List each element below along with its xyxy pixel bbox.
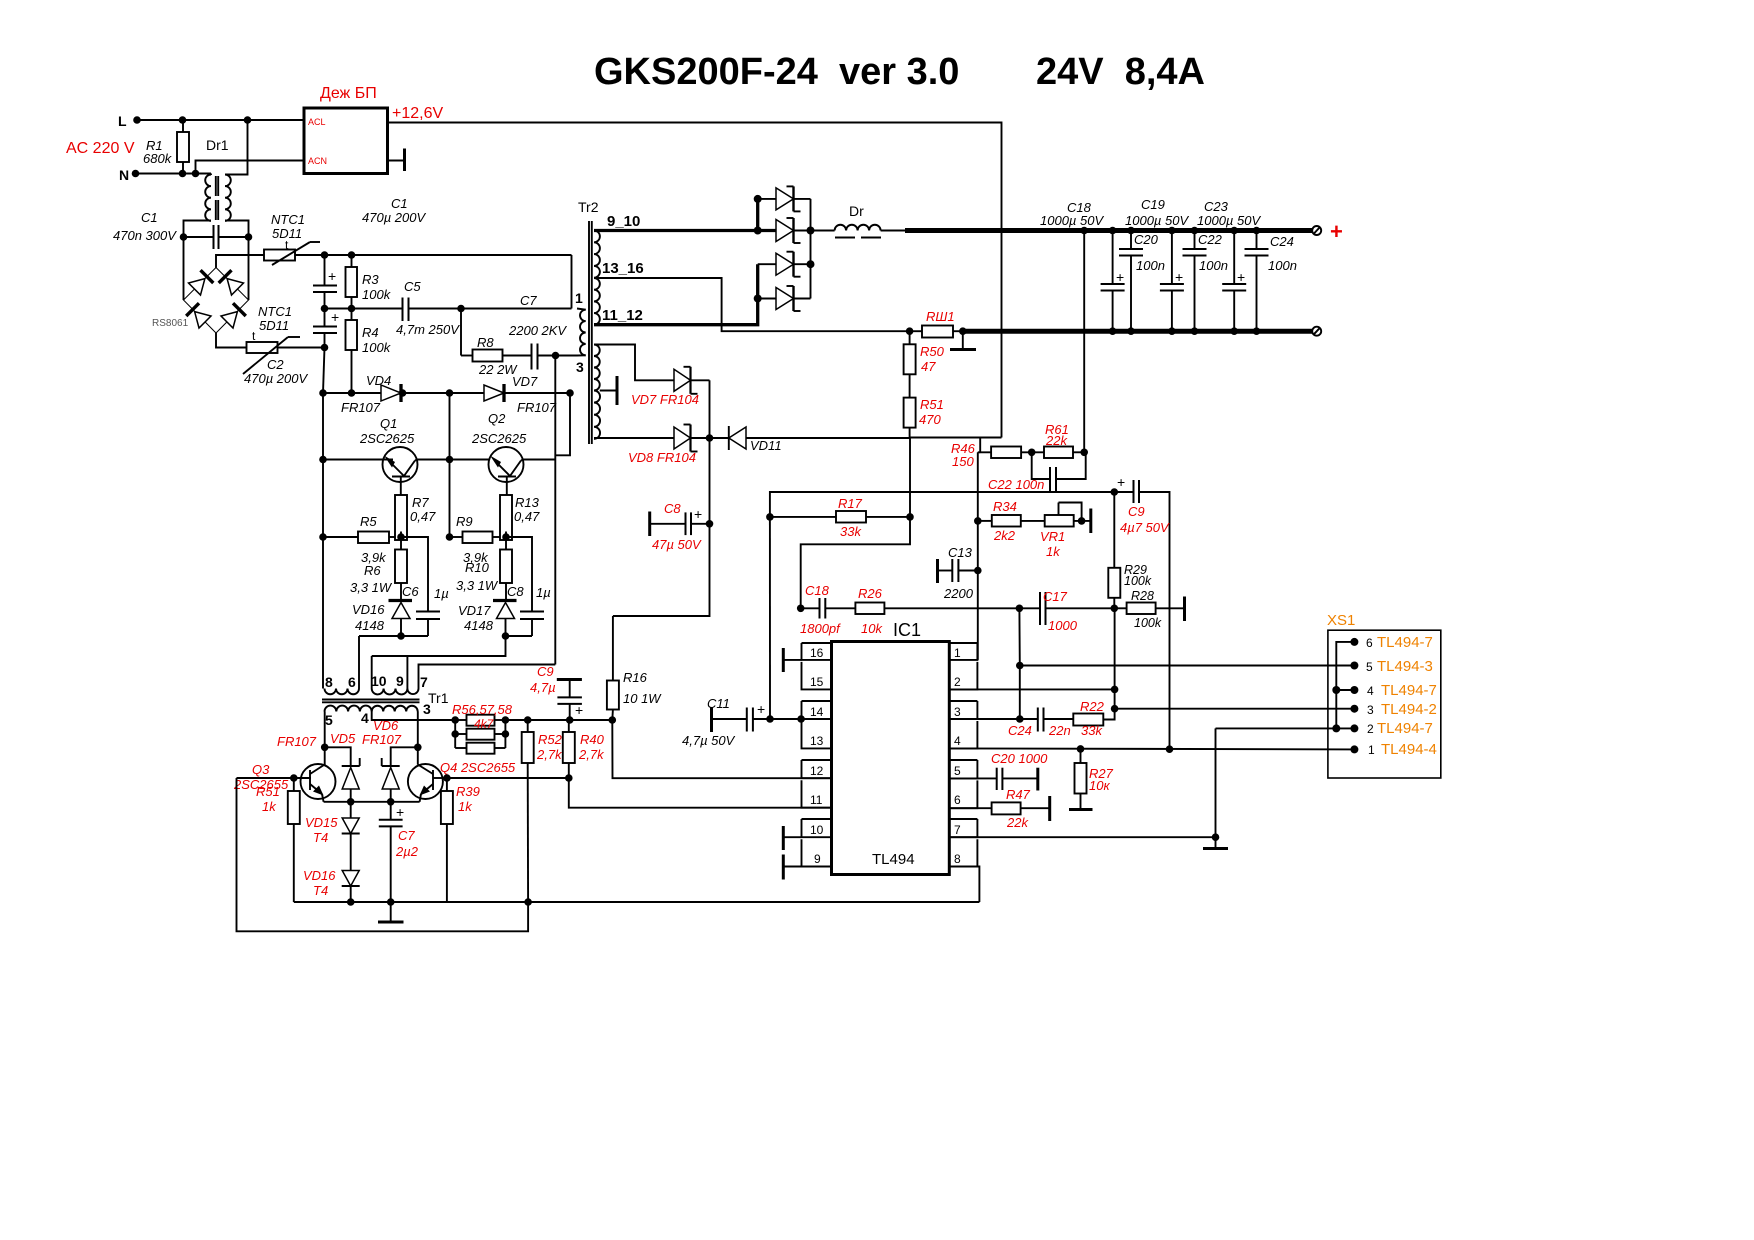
svg-text:1: 1 [575, 290, 583, 306]
inductor Dr1 common-mode choke [184, 120, 249, 300]
diode D1 (dual) [758, 186, 811, 211]
svg-text:470µ 200V: 470µ 200V [362, 210, 426, 225]
svg-text:2200: 2200 [943, 586, 974, 601]
resistor R16 10 1W [607, 616, 662, 720]
pin 7 [949, 819, 977, 837]
wire Tr1 pin4 lead to R56 rail [372, 712, 456, 721]
node junction N-ACN [192, 170, 200, 178]
svg-text:Q1: Q1 [380, 416, 397, 431]
pin 16 [802, 643, 832, 660]
diode VD15 T4 [305, 802, 360, 845]
wire pin4 line to XS1 [949, 748, 1354, 749]
capacitor C6 1u [401, 537, 449, 636]
pin 3 [949, 701, 977, 719]
wire R17 node down to pin14 [769, 517, 771, 719]
capacitor C1 470u 200V [313, 196, 426, 309]
svg-text:Tr1: Tr1 [428, 690, 449, 706]
svg-text:Tr2: Tr2 [578, 199, 599, 215]
output terminal minus [1312, 327, 1321, 336]
node junction VD16-C6 bottom [397, 632, 405, 640]
wire 9_10 rail [594, 229, 776, 232]
svg-text:1k: 1k [1046, 544, 1061, 559]
output capacitor C18 1000u 50V [1040, 200, 1125, 335]
svg-text:4: 4 [361, 710, 369, 726]
wire pin3 to C24 [949, 718, 1020, 720]
svg-text:+12,6V: +12,6V [392, 105, 443, 122]
node junction C8 [706, 520, 714, 528]
transformer Tr2 [575, 199, 599, 444]
wire pin8 to bottom rail [949, 867, 979, 903]
svg-text:C7: C7 [398, 828, 415, 843]
svg-text:2,7k: 2,7k [578, 747, 605, 762]
resistor R5 3,9k [319, 514, 405, 565]
node L terminal [118, 113, 141, 129]
transistor Q3 2SC2655 [233, 747, 336, 802]
svg-text:2SC2625: 2SC2625 [359, 431, 415, 446]
svg-text:100k: 100k [1124, 574, 1152, 588]
node junction NTC2 right [321, 344, 329, 352]
resistor R29 100k [1108, 492, 1152, 608]
svg-text:C22 100n: C22 100n [988, 477, 1044, 492]
potentiometer VR1 1k [1040, 503, 1091, 560]
wire R61 to output bus [1083, 231, 1085, 453]
svg-text:VD11: VD11 [750, 438, 782, 453]
resistor R34 2k2 [974, 499, 1045, 543]
svg-text:RШ1: RШ1 [926, 309, 955, 324]
wire VD17 bottom rail [506, 635, 533, 637]
wire VD4-VD7 line [323, 392, 570, 394]
node junction L-R1 [179, 116, 187, 124]
svg-text:R51: R51 [920, 397, 944, 412]
svg-text:4,7m 250V: 4,7m 250V [396, 322, 460, 337]
pin 13 [802, 721, 832, 748]
svg-text:R5: R5 [360, 514, 377, 529]
svg-text:ACN: ACN [308, 156, 327, 166]
svg-text:1000: 1000 [1048, 618, 1078, 633]
svg-text:VD8 FR104: VD8 FR104 [628, 450, 696, 465]
svg-text:2: 2 [1367, 722, 1374, 736]
svg-text:6: 6 [1366, 636, 1373, 650]
svg-text:VD6: VD6 [373, 718, 399, 733]
wire pin7 line [949, 836, 1215, 838]
svg-text:11_12: 11_12 [602, 307, 643, 324]
svg-text:C20: C20 [1134, 232, 1159, 247]
svg-text:VD17: VD17 [458, 603, 491, 618]
node junction Q1 emitter rail [319, 456, 327, 464]
svg-text:VR1: VR1 [1040, 529, 1065, 544]
diode VD8 FR104 [628, 425, 729, 466]
node junctions bottom rail [347, 898, 355, 906]
svg-text:+: + [1330, 219, 1343, 244]
svg-text:R8: R8 [477, 335, 494, 350]
svg-text:3: 3 [954, 705, 961, 719]
svg-text:47: 47 [921, 359, 936, 374]
svg-text:R28: R28 [1131, 589, 1154, 603]
output terminal plus [1312, 219, 1343, 244]
ground pin10 [783, 826, 801, 850]
svg-text:22k: 22k [1006, 815, 1029, 830]
title [594, 51, 1205, 93]
pin 6 [949, 780, 977, 808]
node junction VD7/VD8 cathodes [706, 434, 714, 442]
svg-text:1k: 1k [458, 799, 473, 814]
wire C24 node vertical [1019, 666, 1021, 720]
svg-text:Деж БП: Деж БП [320, 85, 377, 102]
capacitor C13 2200 [938, 545, 982, 601]
svg-text:R7: R7 [412, 495, 429, 510]
svg-text:NTC1: NTC1 [258, 304, 292, 319]
diode VD16 T4 [303, 834, 360, 903]
svg-text:R3: R3 [362, 272, 379, 287]
svg-text:+: + [1117, 474, 1125, 490]
svg-text:N: N [119, 167, 129, 183]
svg-text:33k: 33k [1081, 723, 1103, 738]
svg-text:4µ7 50V: 4µ7 50V [1120, 520, 1170, 535]
svg-text:3,3 1W: 3,3 1W [456, 578, 499, 593]
wire to Tr2 pin3 [556, 355, 578, 357]
resistor R46 150 [951, 438, 1044, 470]
ground pin9 [783, 855, 801, 880]
resistor R28 100k [1114, 589, 1184, 630]
svg-text:C7: C7 [520, 293, 537, 308]
svg-text:C19: C19 [1141, 197, 1165, 212]
capacitor C18 1800pf [797, 583, 856, 636]
diode VD4 FR107 [341, 373, 401, 415]
transistor Q4 2SC2655 [408, 747, 516, 802]
wire pin3 line to XS1 [1115, 708, 1355, 710]
svg-text:16: 16 [810, 646, 824, 660]
svg-text:4k7: 4k7 [474, 717, 495, 731]
svg-text:R17: R17 [838, 496, 863, 511]
capacitor C8 1u [506, 537, 551, 636]
svg-text:7: 7 [954, 823, 961, 837]
svg-text:1000µ 50V: 1000µ 50V [1040, 213, 1104, 228]
resistor R13 0,47 [500, 495, 540, 540]
svg-text:FR107: FR107 [362, 732, 402, 747]
svg-text:33k: 33k [840, 524, 862, 539]
svg-text:C1: C1 [141, 210, 158, 225]
svg-text:C6: C6 [402, 584, 419, 599]
output capacitor C22 100n [1183, 227, 1228, 335]
node junction L-choke [244, 116, 252, 124]
wire left rail lower [323, 348, 325, 394]
node junction pin7 gnd [1212, 833, 1220, 841]
wire VD7 cathode down [709, 380, 711, 438]
svg-text:C8: C8 [664, 501, 681, 516]
resistor R51 1k [256, 774, 300, 902]
wire mid vertical [449, 393, 451, 537]
thermistor NTC1 5D11 (top) [264, 212, 320, 265]
diode D3 (dual) [758, 252, 811, 277]
ground of standby box [388, 149, 405, 172]
ground symbol bottom [378, 902, 404, 922]
resistor R4 100k [346, 309, 392, 394]
svg-text:R39: R39 [456, 784, 480, 799]
resistor R39 1k [441, 778, 480, 902]
svg-text:22k: 22k [1045, 433, 1068, 448]
svg-text:2,7k: 2,7k [536, 747, 563, 762]
transformer Tr1 [322, 673, 449, 728]
node junction VD5 anode [347, 798, 355, 806]
pin 12 [802, 760, 832, 778]
svg-text:3: 3 [423, 701, 431, 717]
svg-text:22n: 22n [1048, 723, 1071, 738]
wire Q3-Q4 emitter rail [324, 801, 420, 803]
svg-text:+: + [396, 804, 404, 820]
svg-text:+: + [331, 309, 339, 325]
svg-text:1k: 1k [262, 799, 277, 814]
resistor R61 22k [1044, 422, 1084, 458]
svg-text:Dr1: Dr1 [206, 137, 229, 153]
svg-text:2SC2625: 2SC2625 [471, 431, 527, 446]
svg-text:1µ: 1µ [536, 585, 551, 600]
ground at output minus [950, 331, 976, 349]
resistor R6 3,3 1W [350, 537, 407, 601]
svg-text:6: 6 [954, 793, 961, 807]
wire pin12 line [612, 720, 830, 778]
capacitor C17 1000 [1019, 589, 1114, 633]
resistor R17 33k [766, 496, 914, 539]
svg-text:5: 5 [1366, 660, 1373, 674]
svg-text:9: 9 [814, 852, 821, 866]
wire Tr1 pin7 lead [419, 665, 556, 689]
svg-text:4148: 4148 [355, 618, 385, 633]
inductor Dr [835, 203, 905, 238]
resistor block R56,57,58 4k7 [451, 702, 612, 754]
svg-text:100k: 100k [362, 287, 392, 302]
resistor R47 22k [949, 787, 1049, 830]
capacitor C22 100n [988, 452, 1086, 492]
svg-text:10к: 10к [1089, 778, 1110, 793]
svg-text:4,7µ: 4,7µ [530, 680, 556, 695]
svg-text:15: 15 [810, 675, 824, 689]
svg-text:4: 4 [954, 734, 961, 748]
svg-text:+: + [328, 268, 336, 284]
wire +12.6V joins aux [910, 437, 1002, 439]
node D3/D4 anode [754, 295, 762, 303]
svg-text:C2: C2 [267, 357, 284, 372]
svg-text:C5: C5 [404, 279, 421, 294]
svg-text:AC 220 V: AC 220 V [66, 140, 135, 157]
wire Tr1 pin9-pin10 link [372, 636, 506, 689]
svg-text:470: 470 [919, 412, 941, 427]
svg-text:T4: T4 [313, 883, 328, 898]
wire bridge bottom to NTC2 [216, 333, 247, 348]
diode VD6 [362, 718, 418, 802]
node D1 anode [754, 195, 762, 203]
svg-text:TL494-2: TL494-2 [1381, 701, 1437, 718]
capacitor C7 2u2 [379, 802, 419, 902]
wire base feedback loop [237, 778, 529, 931]
wire pin5 line to XS1 [1019, 608, 1354, 665]
node junction VD17-C8 bottom [502, 632, 510, 640]
wire D1 anode riser [756, 199, 759, 231]
wire feedback vertical to pin1 [977, 452, 979, 660]
svg-text:470µ 200V: 470µ 200V [244, 371, 308, 386]
diode VD16 4148 [352, 601, 412, 637]
svg-text:R13: R13 [515, 495, 540, 510]
node junction R27 top [1077, 745, 1085, 753]
node junction C24 left [1016, 715, 1024, 723]
node junction VD6 anode C7 [387, 798, 395, 806]
output capacitor C20 100n [1119, 227, 1165, 335]
svg-text:C11: C11 [707, 696, 730, 711]
transistor Q1 2SC2625 [323, 416, 418, 495]
svg-text:4: 4 [1367, 684, 1374, 698]
svg-text:8: 8 [325, 674, 333, 690]
wire softstart rail [770, 492, 1114, 517]
svg-text:2: 2 [954, 675, 961, 689]
wire bridge top to NTC rail [216, 255, 572, 268]
svg-text:R26: R26 [858, 586, 883, 601]
wire ACN [196, 161, 305, 174]
svg-text:C20 1000: C20 1000 [991, 751, 1048, 766]
node junction mid rail [446, 456, 454, 464]
svg-text:+: + [694, 506, 702, 522]
svg-text:2µ2: 2µ2 [395, 844, 419, 859]
capacitor C2 470u 200V [244, 309, 339, 387]
node cap midpoint [321, 305, 329, 313]
wire NTC rail down to Tr2 pin1 [571, 255, 573, 309]
pin 15 [802, 662, 832, 690]
svg-text:TL494-4: TL494-4 [1381, 741, 1437, 758]
node junction N-R1 [179, 170, 187, 178]
pin 1 [949, 643, 977, 660]
node junction VD6 top [414, 744, 422, 752]
wire mid rail [325, 308, 403, 310]
svg-text:100n: 100n [1136, 258, 1165, 273]
svg-text:10 1W: 10 1W [623, 691, 662, 706]
svg-text:C24: C24 [1008, 723, 1032, 738]
svg-text:13: 13 [810, 734, 824, 748]
wire bottom rail [294, 901, 980, 903]
svg-text:R50: R50 [920, 344, 945, 359]
wire N rail [136, 173, 212, 175]
node junction pin5-line [1016, 662, 1024, 670]
wire Tr1 pin6 lead [358, 636, 360, 689]
pin 5 [949, 760, 977, 778]
svg-text:6: 6 [348, 674, 356, 690]
node junction R3 bottom [348, 305, 356, 313]
resistor R1 680k [143, 120, 189, 174]
node junction NTC1 right [321, 251, 329, 259]
svg-text:100n: 100n [1268, 258, 1297, 273]
pin 10 [802, 819, 832, 837]
resistor RSh1 shunt [906, 309, 967, 338]
svg-text:100k: 100k [362, 340, 392, 355]
diode VD7 FR107 [484, 374, 557, 415]
output capacitor C19 1000u 50V [1125, 197, 1189, 335]
winding Tr2 9_10/13_16 [594, 213, 644, 325]
node junctions R56 rail [524, 716, 532, 724]
svg-text:R52: R52 [538, 732, 563, 747]
capacitor C24 22n [1008, 708, 1073, 739]
transistor Q2 2SC2625 [471, 411, 527, 495]
diode VD17 4148 [458, 601, 517, 637]
pin 9 [802, 839, 832, 866]
resistor R8 22 2W [461, 309, 532, 378]
svg-text:TL494: TL494 [872, 851, 915, 868]
svg-text:NTC1: NTC1 [271, 212, 305, 227]
wire 13_16 centre tap [594, 278, 910, 331]
svg-text:TL494-7: TL494-7 [1381, 682, 1437, 699]
svg-text:Q4 2SC2655: Q4 2SC2655 [440, 760, 516, 775]
svg-text:C9: C9 [1128, 504, 1145, 519]
svg-text:4148: 4148 [464, 618, 494, 633]
svg-text:TL494-3: TL494-3 [1377, 658, 1433, 675]
ground of aux winding centre tap [600, 376, 617, 405]
wire pin11 line [569, 778, 831, 808]
resistor R40 2,7k [563, 720, 605, 782]
svg-text:C18: C18 [805, 583, 830, 598]
wire Tr1 pin5 lead [324, 712, 326, 748]
bridge rectifier RS8061 [152, 268, 249, 334]
resistor R9 3,9k [446, 514, 510, 565]
wire output minus bus [963, 329, 1312, 334]
svg-text:+: + [1116, 269, 1124, 285]
svg-text:R40: R40 [580, 732, 605, 747]
svg-text:C13: C13 [948, 545, 973, 560]
svg-text:R22: R22 [1080, 699, 1105, 714]
svg-text:5D11: 5D11 [259, 318, 289, 333]
diode D2 (dual) [776, 218, 835, 243]
svg-text:R34: R34 [993, 499, 1017, 514]
svg-text:VD7 FR104: VD7 FR104 [631, 392, 699, 407]
svg-text:VD15: VD15 [305, 815, 338, 830]
node junction C11-pin14 [766, 715, 774, 723]
diode VD5 [325, 731, 360, 802]
wire left rail [322, 393, 324, 689]
svg-text:+: + [575, 702, 583, 718]
svg-text:Q2: Q2 [488, 411, 506, 426]
svg-text:+: + [1175, 269, 1183, 285]
capacitor C9 4u7 50V [1111, 474, 1171, 749]
svg-text:9: 9 [396, 673, 404, 689]
svg-text:XS1: XS1 [1327, 612, 1355, 629]
wire output plus bus [905, 228, 1312, 233]
svg-text:VD5: VD5 [330, 731, 356, 746]
svg-text:5: 5 [954, 764, 961, 778]
wire diode cathode bus [810, 199, 812, 299]
svg-text:IC1: IC1 [893, 620, 921, 640]
pin 2 [949, 662, 977, 690]
svg-text:1: 1 [1368, 743, 1375, 757]
wire Q4 base line to R40 [447, 777, 569, 779]
wire Q1-Q2 mid [417, 459, 488, 461]
node cathode junction top [807, 227, 815, 235]
node junction C17 left [1016, 605, 1024, 613]
svg-text:24V 8,4A: 24V 8,4A [1036, 51, 1205, 93]
wire Q2 collector jog to VD7 line end [555, 393, 570, 455]
svg-text:7: 7 [420, 674, 428, 690]
svg-text:R47: R47 [1006, 787, 1031, 802]
pin 14 [802, 701, 832, 719]
svg-text:C8: C8 [507, 584, 524, 599]
wire Tr1 pin3 lead [417, 712, 419, 748]
svg-text:+: + [757, 701, 765, 717]
svg-text:L: L [118, 113, 127, 129]
node junction C5-R8 [457, 305, 465, 313]
svg-text:4,7µ 50V: 4,7µ 50V [682, 733, 736, 748]
svg-text:R9: R9 [456, 514, 473, 529]
svg-text:T4: T4 [313, 830, 328, 845]
wire 11_12 rail [594, 264, 758, 325]
svg-text:100n: 100n [1199, 258, 1228, 273]
pin 8 [949, 839, 977, 866]
ground pin7 [1203, 837, 1228, 848]
svg-text:C1: C1 [391, 196, 408, 211]
svg-text:TL494-7: TL494-7 [1377, 720, 1433, 737]
